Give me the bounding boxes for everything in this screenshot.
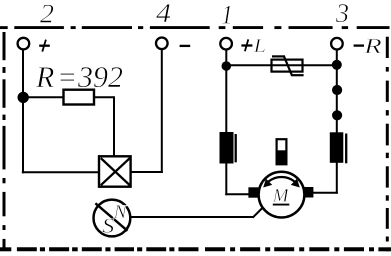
svg-text:4: 4 xyxy=(156,0,171,28)
svg-text:L: L xyxy=(253,36,267,57)
svg-text:1: 1 xyxy=(221,0,233,29)
svg-text:=: = xyxy=(57,61,77,94)
svg-text:R: R xyxy=(35,61,54,94)
svg-text:N: N xyxy=(113,202,128,223)
svg-text:S: S xyxy=(102,214,115,238)
svg-text:392: 392 xyxy=(77,61,123,94)
svg-text:2: 2 xyxy=(40,0,54,29)
svg-text:R: R xyxy=(363,34,382,58)
svg-text:3: 3 xyxy=(335,0,349,28)
svg-text:M: M xyxy=(272,186,290,207)
